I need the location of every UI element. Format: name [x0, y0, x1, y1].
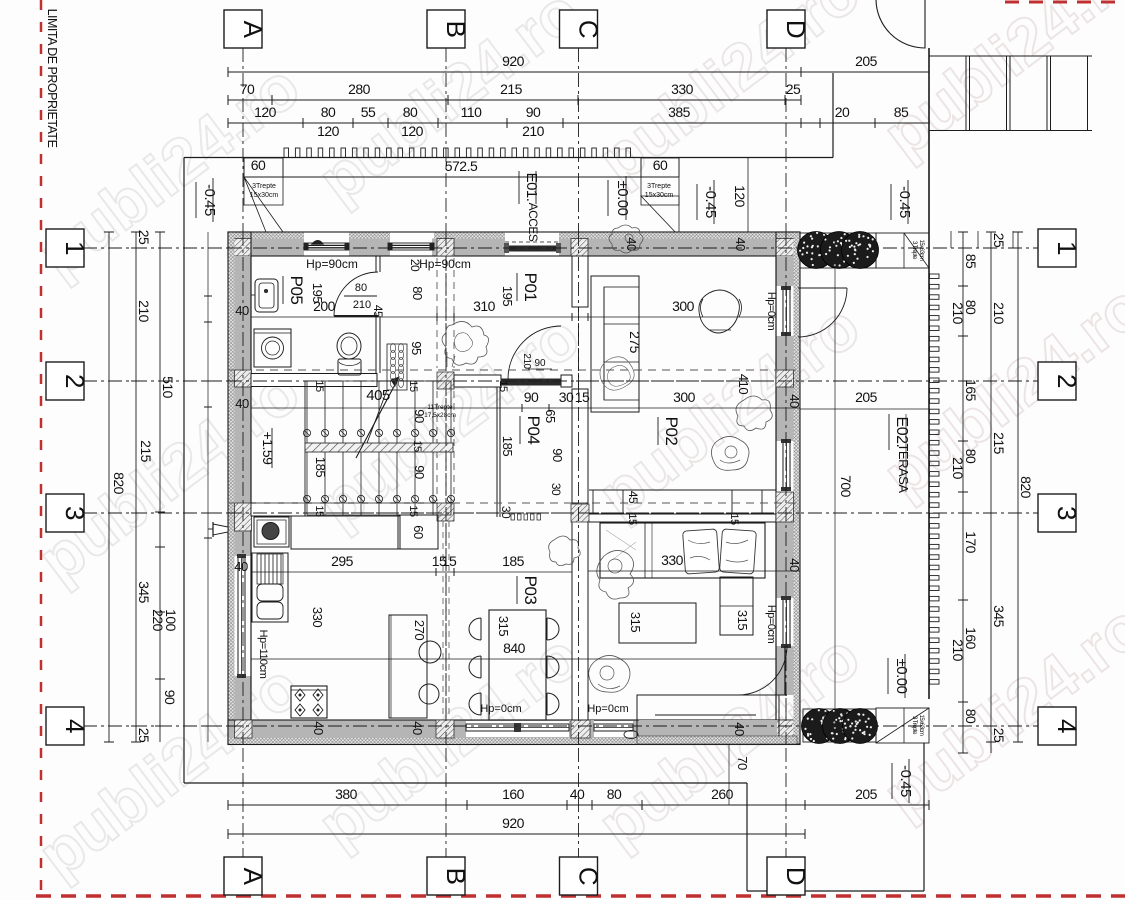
- svg-text:±0.00: ±0.00: [893, 659, 910, 694]
- left wall outer hatch skin: [228, 232, 235, 744]
- stairs direction arrow: [356, 377, 399, 458]
- bottom wall hatched pier B: [436, 720, 454, 738]
- plant sketch bedroom left: [549, 536, 581, 566]
- grid marker 3 left: [46, 494, 84, 532]
- svg-text:345: 345: [136, 581, 152, 604]
- svg-text:385: 385: [668, 104, 691, 120]
- tree top 2: [821, 232, 858, 269]
- svg-text:E01.: E01.: [523, 173, 540, 202]
- left dimension line 510/220/100/90: [159, 232, 161, 742]
- svg-text:160: 160: [502, 786, 525, 802]
- svg-text:195: 195: [310, 283, 325, 303]
- tree group top right box: [800, 233, 876, 268]
- terrace door bedroom leaf and arc: [784, 646, 786, 695]
- terrace edge teeth right: [930, 274, 940, 279]
- svg-text:15: 15: [407, 380, 419, 392]
- svg-text:280: 280: [348, 81, 371, 97]
- svg-text:120: 120: [732, 185, 748, 208]
- radiator fins hall: [387, 344, 407, 390]
- dim 840 line: [251, 658, 776, 660]
- svg-text:80: 80: [607, 786, 622, 802]
- upper floor overhang dashed line 1: [228, 369, 800, 371]
- svg-text:B: B: [441, 868, 471, 885]
- top wall outer hatch skin: [228, 232, 304, 239]
- pier hatch right of entry door: [571, 239, 588, 257]
- bed frame: [600, 523, 765, 578]
- door P04 swing arc: [508, 326, 561, 379]
- svg-text:90: 90: [534, 358, 546, 369]
- top dimension line 120/80/55/80/110/90/385/20/85: [228, 122, 929, 124]
- toilet: [337, 333, 361, 359]
- svg-text:P03: P03: [521, 576, 540, 605]
- stairs handrail band: [305, 443, 453, 452]
- right dimension line 25/210/215/345/25: [990, 232, 992, 753]
- svg-text:65: 65: [543, 409, 558, 423]
- svg-text:70: 70: [240, 81, 255, 97]
- door P04 panel: [501, 379, 561, 386]
- svg-text:40: 40: [234, 559, 248, 574]
- kitchen boiler cabinet: [254, 517, 289, 547]
- grid marker B bottom: [427, 857, 465, 895]
- P04 wall left: [496, 387, 498, 517]
- svg-text:LIMITA DE PROPRIETATE: LIMITA DE PROPRIETATE: [45, 9, 59, 148]
- svg-text:P04: P04: [524, 416, 543, 445]
- dining chairs right: [547, 618, 559, 640]
- svg-text:310: 310: [473, 298, 496, 314]
- svg-text:700: 700: [838, 475, 854, 498]
- window W8 right wall bedroom: [783, 598, 790, 646]
- svg-text:572.5: 572.5: [445, 158, 478, 174]
- svg-text:15x30cm: 15x30cm: [250, 192, 279, 199]
- walkway edge to top gate: [832, 73, 834, 158]
- svg-text:C: C: [574, 867, 604, 885]
- svg-text:210: 210: [522, 123, 545, 139]
- svg-text:Hp=0cm: Hp=0cm: [587, 703, 628, 715]
- right wall hatched pier bedroom: [776, 492, 794, 522]
- svg-text:40: 40: [570, 786, 585, 802]
- outdoor tap symbol left wall: [228, 528, 229, 530]
- left wall gray band: [235, 256, 252, 370]
- svg-text:60: 60: [251, 157, 266, 173]
- svg-text:3Trepte: 3Trepte: [647, 183, 671, 190]
- bottom dimension line 380/160/40/80/260/205: [228, 804, 929, 806]
- site boundary top edge: [184, 157, 833, 159]
- svg-text:210: 210: [950, 302, 966, 325]
- svg-text:920: 920: [502, 53, 525, 69]
- svg-text:A: A: [238, 868, 268, 886]
- left dimension line 25/210/215/345/25: [135, 232, 137, 742]
- svg-text:30: 30: [559, 389, 574, 405]
- grid marker D bottom: [767, 857, 805, 895]
- grid line D vertical dash-dot: [785, 48, 787, 857]
- svg-text:185: 185: [502, 553, 525, 569]
- top dimension line 920/205: [228, 71, 929, 73]
- P04 wall right: [572, 389, 588, 503]
- terrace steps box bottom 3Trepte: [876, 708, 929, 743]
- right dimension line 85/80/165/80/170/160/80: [962, 232, 964, 753]
- svg-text:300: 300: [672, 298, 695, 314]
- spine wall hatched pier mid: [437, 372, 454, 389]
- grid line 3 horizontal dash-dot: [83, 512, 1039, 514]
- svg-text:210: 210: [136, 300, 152, 323]
- terrace dim 700 vertical: [834, 232, 836, 744]
- svg-text:120: 120: [254, 104, 277, 120]
- spine wall hatched pier at kitchen: [437, 503, 454, 521]
- svg-text:ACCES: ACCES: [526, 203, 540, 242]
- grid marker 3 right: [1038, 494, 1076, 532]
- svg-text:80: 80: [403, 104, 418, 120]
- svg-text:3Trepte: 3Trepte: [252, 183, 276, 190]
- terrace door arc from living room: [798, 288, 847, 337]
- svg-text:110: 110: [461, 104, 483, 120]
- bedroom terrace planter box: [637, 695, 779, 736]
- svg-text:90: 90: [412, 409, 427, 423]
- svg-text:Hp=90cm: Hp=90cm: [306, 257, 358, 271]
- svg-text:D: D: [781, 20, 811, 38]
- window W7 right wall living lower: [783, 441, 790, 489]
- right wall outer hatch skin: [794, 232, 801, 744]
- svg-text:80: 80: [355, 282, 367, 294]
- driveway outline bottom right: [746, 783, 748, 891]
- radiator teeth P04: [511, 514, 515, 520]
- site right edge / terrace edge line: [928, 48, 930, 699]
- svg-text:1: 1: [1052, 241, 1082, 255]
- svg-text:90: 90: [550, 448, 565, 462]
- window W1 top wall: [304, 243, 349, 250]
- bedroom flower sketch: [589, 655, 630, 692]
- svg-text:380: 380: [335, 786, 358, 802]
- top dimension line 70/280/215/330/25: [228, 99, 801, 101]
- svg-text:15: 15: [313, 380, 325, 392]
- kitchen sink double bowl: [252, 553, 288, 622]
- svg-text:Hp=0cm: Hp=0cm: [480, 703, 521, 715]
- dining table: [489, 610, 546, 720]
- svg-text:295: 295: [331, 553, 354, 569]
- left wall hatched pier at kitchen wall: [235, 503, 252, 531]
- svg-text:Hp=0cm: Hp=0cm: [765, 292, 777, 331]
- grid line B vertical dash-dot: [445, 48, 447, 857]
- svg-text:80: 80: [963, 709, 979, 724]
- right dimension line 820: [1017, 232, 1019, 742]
- svg-text:Hp=110cm: Hp=110cm: [257, 630, 269, 679]
- site boundary left edge: [183, 158, 185, 784]
- svg-text:P05: P05: [287, 276, 306, 305]
- grid line A vertical dash-dot: [242, 48, 244, 857]
- interior dim line rooms row1: [251, 316, 776, 318]
- svg-text:920: 920: [502, 815, 525, 831]
- svg-text:210: 210: [950, 457, 966, 480]
- tree top 3: [842, 232, 879, 269]
- sofa: [591, 276, 639, 412]
- svg-text:820: 820: [111, 472, 127, 495]
- svg-text:405: 405: [366, 387, 390, 404]
- grid line 1 horizontal dash-dot: [83, 247, 1039, 249]
- P01-P02 wall upper: [572, 256, 588, 307]
- svg-text:315: 315: [735, 610, 750, 630]
- stairs lower flight treads: [306, 452, 308, 515]
- svg-text:15: 15: [313, 505, 325, 517]
- svg-text:270: 270: [412, 620, 427, 640]
- svg-text:40: 40: [624, 237, 639, 251]
- grid marker C bottom: [560, 857, 598, 895]
- svg-text:17,5x28cm: 17,5x28cm: [424, 412, 456, 419]
- svg-text:40: 40: [410, 721, 425, 735]
- svg-text:300: 300: [673, 389, 696, 405]
- door size 90/210 label: [528, 368, 552, 370]
- grid marker 1 left: [46, 229, 84, 267]
- svg-text:Hp=90cm: Hp=90cm: [419, 257, 471, 271]
- bottom wall gray band: [228, 720, 800, 738]
- tree group bottom box: [803, 709, 876, 742]
- svg-text:15: 15: [442, 553, 457, 569]
- svg-text:P01: P01: [521, 273, 540, 302]
- stairs left stringer: [304, 381, 306, 515]
- tree bottom 2: [823, 709, 858, 744]
- svg-text:15: 15: [575, 389, 590, 405]
- bottom wall outer hatch skin: [228, 738, 800, 745]
- svg-text:85: 85: [894, 104, 909, 120]
- plant sketch living right: [736, 396, 772, 431]
- top-right corner hatched pier: [776, 239, 800, 257]
- svg-text:C: C: [574, 20, 604, 38]
- tree bottom 1: [802, 709, 837, 744]
- svg-text:60: 60: [653, 157, 668, 173]
- kitchen island counter: [389, 615, 427, 718]
- grid marker B top: [427, 10, 465, 48]
- grid marker 4 left: [46, 707, 84, 745]
- svg-text:4: 4: [1052, 719, 1082, 733]
- svg-text:40: 40: [235, 396, 249, 411]
- svg-text:85: 85: [963, 254, 979, 269]
- svg-text:330: 330: [310, 607, 325, 627]
- grid marker D top: [767, 10, 805, 48]
- bottom-left corner hatched pier: [235, 720, 253, 738]
- svg-text:840: 840: [503, 640, 526, 656]
- grid line 2 horizontal dash-dot: [83, 380, 1039, 382]
- left dimension line 820: [108, 232, 110, 742]
- property limit red dashed line left: [40, 0, 43, 900]
- svg-text:25: 25: [136, 728, 152, 743]
- dimension line 60/572.5/60 above house: [244, 176, 679, 178]
- grid lines overlay crossing building: [228, 247, 800, 249]
- svg-text:90: 90: [526, 104, 541, 120]
- svg-text:25: 25: [786, 81, 801, 97]
- svg-text:15: 15: [626, 513, 638, 525]
- upper floor overhang dashed line 2: [228, 502, 800, 504]
- svg-text:3 Trepte: 3 Trepte: [911, 716, 917, 735]
- svg-text:4: 4: [60, 719, 90, 733]
- paving slabs top right: [929, 55, 1092, 57]
- svg-text:120: 120: [317, 123, 340, 139]
- tree bottom 3: [843, 709, 878, 744]
- svg-text:90: 90: [162, 690, 178, 705]
- bedroom wardrobe: [720, 577, 753, 635]
- chimney dashed vertical lines: [442, 521, 444, 718]
- svg-text:3: 3: [60, 506, 90, 520]
- svg-text:3 Trepte: 3 Trepte: [911, 241, 917, 260]
- svg-text:80: 80: [410, 286, 425, 300]
- svg-text:70: 70: [735, 756, 750, 770]
- svg-text:TERASA: TERASA: [896, 443, 911, 493]
- svg-text:185: 185: [313, 457, 328, 477]
- svg-text:30: 30: [549, 483, 563, 496]
- terrace steps box top 3Trepte: [876, 233, 929, 268]
- svg-text:-0.45: -0.45: [702, 186, 719, 218]
- svg-text:40: 40: [787, 558, 802, 572]
- plant sketch hall: [442, 321, 489, 365]
- island stools: [419, 641, 441, 663]
- svg-text:25: 25: [136, 230, 152, 245]
- hall-P04 wall with door: [454, 375, 501, 387]
- bedroom person sketch: [597, 550, 634, 599]
- grid marker 2 left: [46, 362, 84, 400]
- svg-text:195: 195: [500, 286, 515, 306]
- sofa cushion figure sketch: [600, 357, 634, 390]
- site boundary bottom edge: [184, 782, 747, 784]
- svg-text:15x30cm: 15x30cm: [645, 192, 674, 199]
- svg-text:±0.00: ±0.00: [614, 181, 631, 216]
- svg-text:3: 3: [1052, 506, 1082, 520]
- gate door arc top right: [876, 0, 925, 48]
- svg-text:15x63cm: 15x63cm: [918, 240, 924, 261]
- svg-text:260: 260: [711, 786, 734, 802]
- grid marker A top: [224, 10, 262, 48]
- window W6 right wall living upper: [783, 288, 790, 334]
- svg-text:510: 510: [160, 376, 176, 399]
- stairs balusters lower: [303, 495, 310, 502]
- living-bedroom wall 15cm: [589, 513, 776, 515]
- svg-text:820: 820: [1018, 476, 1034, 499]
- window W2 top wall: [388, 243, 434, 250]
- svg-text:-0.45: -0.45: [896, 186, 913, 218]
- bottom dimension line 920: [228, 833, 805, 835]
- svg-text:315: 315: [496, 616, 511, 636]
- svg-text:210: 210: [991, 302, 1007, 325]
- svg-text:345: 345: [991, 605, 1007, 628]
- svg-text:Hp=0cm: Hp=0cm: [765, 605, 777, 644]
- svg-text:15x63cm: 15x63cm: [918, 715, 924, 736]
- svg-text:-0.45: -0.45: [201, 184, 218, 216]
- svg-text:2: 2: [1052, 374, 1082, 388]
- svg-text:40: 40: [733, 237, 748, 251]
- svg-text:2: 2: [60, 374, 90, 388]
- kitchen stove: [291, 686, 327, 718]
- svg-text:D: D: [781, 867, 811, 885]
- top wall gray band: [251, 239, 304, 257]
- left wall dim line 40: [207, 232, 209, 742]
- svg-text:120: 120: [401, 123, 424, 139]
- grid marker 2 right: [1038, 362, 1076, 400]
- svg-text:330: 330: [671, 81, 694, 97]
- entry door E01 panel: [507, 246, 558, 252]
- svg-text:1: 1: [60, 241, 90, 255]
- window W4 bottom wall: [466, 724, 569, 731]
- entry steps marker right 3Trepte: [641, 158, 679, 205]
- spine wall dashed overhead outline: [436, 258, 438, 368]
- svg-text:95: 95: [409, 341, 424, 355]
- entry steps marker left 3Trepte: [244, 158, 283, 205]
- hatched pier living-bedroom wall: [571, 504, 589, 522]
- svg-text:165: 165: [963, 379, 979, 402]
- svg-text:-0.45: -0.45: [897, 765, 914, 797]
- bottom wall hatched pier C: [569, 720, 594, 738]
- svg-text:20: 20: [835, 104, 850, 120]
- svg-text:25: 25: [991, 728, 1007, 743]
- svg-text:410: 410: [736, 374, 751, 394]
- bedroom rug: [619, 603, 696, 643]
- fence teeth top: [284, 148, 289, 158]
- svg-text:P02: P02: [662, 417, 681, 446]
- svg-text:+1.59: +1.59: [260, 432, 276, 466]
- svg-text:55: 55: [361, 104, 376, 120]
- bedroom headboard shelf line: [589, 489, 776, 491]
- svg-text:15: 15: [407, 505, 419, 517]
- bathroom door arc 80/210: [334, 272, 378, 316]
- armchair living: [699, 290, 740, 333]
- svg-text:210: 210: [950, 639, 966, 662]
- grid marker C top: [560, 10, 598, 48]
- bottom-right corner hatched pier: [776, 720, 800, 738]
- spine wall top hatched pier: [437, 239, 454, 257]
- grid marker A bottom: [224, 857, 262, 895]
- svg-text:210: 210: [353, 299, 371, 311]
- washing machine: [254, 329, 291, 367]
- svg-text:215: 215: [138, 440, 154, 463]
- grid line 4 horizontal dash-dot: [83, 725, 1039, 727]
- top-left corner hatched pier: [228, 239, 251, 257]
- flower sketch near entrance: [609, 225, 643, 253]
- bed sheet fold lines: [644, 523, 646, 578]
- grid line C vertical dash-dot: [578, 48, 580, 857]
- terrace dim 205 line: [800, 408, 929, 410]
- bottom wall window openings white: [466, 721, 569, 737]
- tree top 1: [798, 232, 835, 269]
- kitchen wall at stairs: [251, 503, 305, 516]
- svg-text:205: 205: [855, 786, 878, 802]
- grid marker 1 right: [1038, 229, 1076, 267]
- svg-text:90: 90: [524, 389, 539, 405]
- svg-text:205: 205: [855, 389, 878, 405]
- bathroom P05 wall bottom: [251, 374, 377, 387]
- right top dim ticks 25/85: [950, 231, 952, 248]
- window W3 left wall kitchen: [238, 556, 245, 676]
- bathroom sink: [255, 279, 278, 312]
- svg-text:11Trepte: 11Trepte: [427, 404, 453, 411]
- svg-text:170: 170: [963, 531, 979, 554]
- kitchen dim line 295/15/185: [251, 571, 572, 573]
- interior dim line rooms row2: [251, 407, 800, 409]
- flower sketch living bottom: [711, 436, 749, 470]
- bottom terrace hatched strip: [637, 736, 797, 744]
- right wall hatched pier row2: [776, 370, 794, 387]
- bed pillows: [683, 529, 757, 574]
- property limit red dashed line top right: [1005, 1, 1125, 4]
- svg-text:20: 20: [408, 259, 422, 272]
- svg-text:45: 45: [626, 491, 640, 504]
- svg-text:330: 330: [661, 552, 684, 568]
- svg-text:40: 40: [787, 394, 802, 408]
- svg-text:315: 315: [628, 612, 643, 632]
- svg-text:275: 275: [627, 331, 643, 354]
- svg-text:60: 60: [411, 525, 426, 539]
- svg-text:B: B: [441, 21, 471, 38]
- grid marker 4 right: [1038, 707, 1076, 745]
- bed dim line 330/40: [588, 570, 800, 572]
- property limit red dashed line bottom: [36, 894, 1125, 897]
- svg-text:40: 40: [311, 721, 326, 735]
- svg-text:15: 15: [728, 513, 740, 525]
- svg-text:15: 15: [497, 380, 509, 392]
